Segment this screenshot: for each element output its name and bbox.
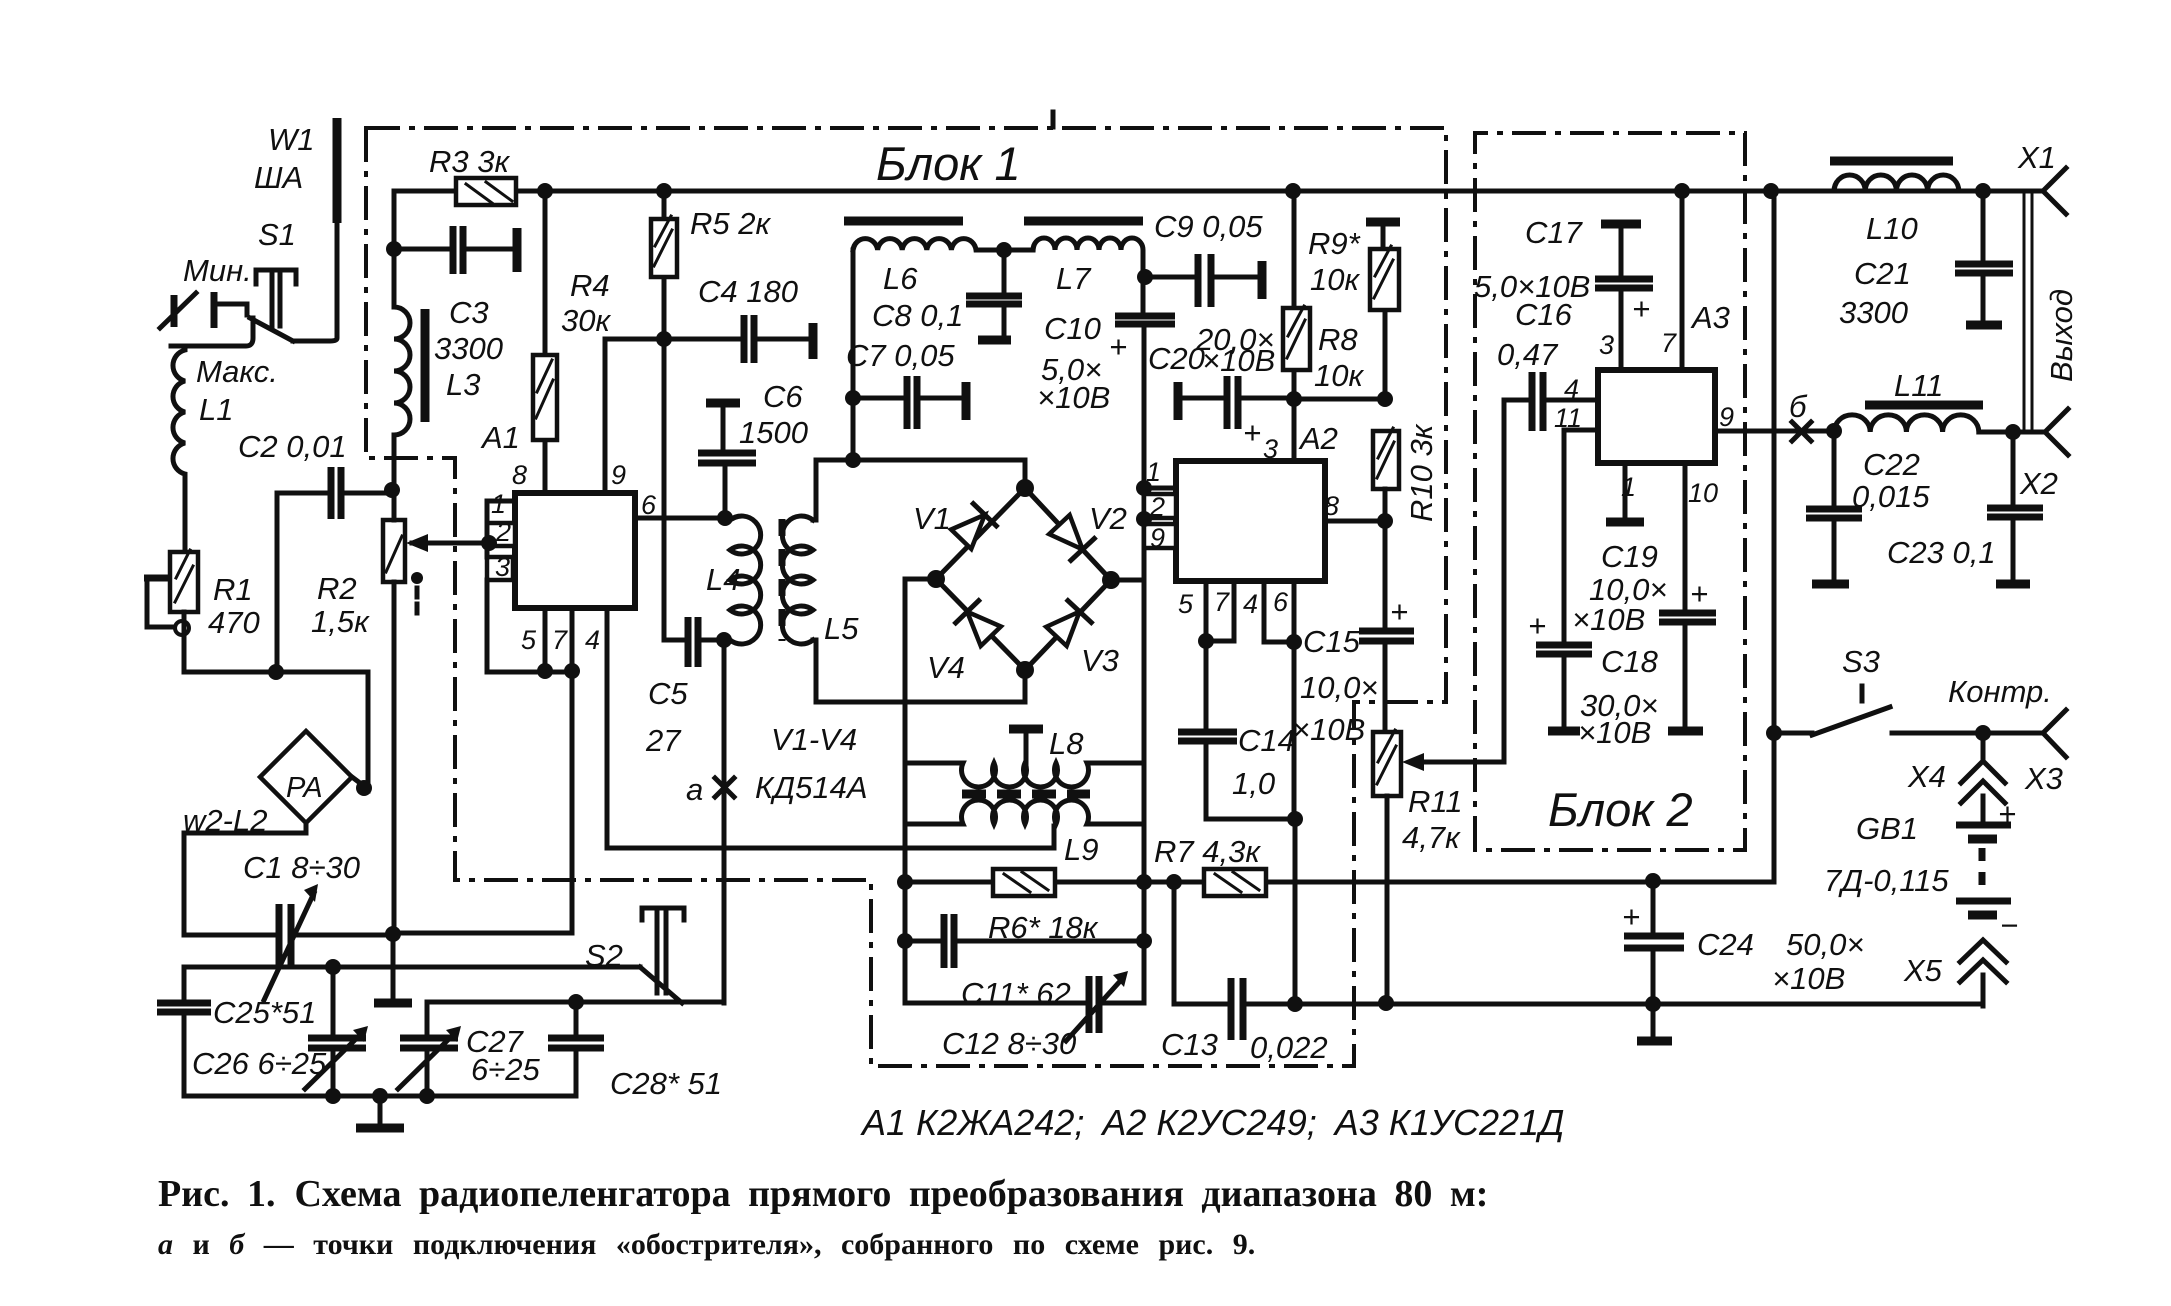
wire A2 pins 4,6 <box>1264 581 1294 819</box>
svg-text:Рис. 1. Схема радиопеленгатора: Рис. 1. Схема радиопеленгатора прямого п… <box>158 1173 1488 1215</box>
antenna W1 <box>333 118 342 223</box>
wire A3 pin7 <box>1680 191 1685 370</box>
junction C14/pin6 net <box>1287 811 1303 827</box>
svg-text:470: 470 <box>208 605 260 640</box>
core L4/L5 <box>779 519 786 641</box>
junction C26 top <box>325 959 341 975</box>
junction rail/C21 <box>1975 183 1991 199</box>
inductor L7 <box>1033 238 1143 316</box>
svg-text:R4: R4 <box>570 268 610 303</box>
svg-text:L5: L5 <box>824 611 859 646</box>
svg-text:10к: 10к <box>1314 358 1364 393</box>
wire A3 pin1 <box>1623 463 1628 519</box>
svg-text:2: 2 <box>495 517 511 547</box>
wire A3 pin11 <box>1564 430 1598 645</box>
svg-text:1: 1 <box>491 489 506 519</box>
svg-text:C12 8÷30: C12 8÷30 <box>942 1026 1076 1061</box>
svg-text:1500: 1500 <box>739 415 808 450</box>
svg-text:C10: C10 <box>1044 311 1101 346</box>
svg-text:Мин.: Мин. <box>183 253 252 288</box>
svg-text:4,7к: 4,7к <box>1402 820 1461 855</box>
wire R8-R9 node <box>1294 397 1385 402</box>
svg-text:C6: C6 <box>763 379 803 414</box>
svg-text:9: 9 <box>1150 523 1165 553</box>
svg-text:3: 3 <box>1599 330 1614 360</box>
junction R6 right <box>1136 874 1152 890</box>
svg-text:L3: L3 <box>446 367 480 402</box>
svg-text:×10В: ×10В <box>1037 380 1110 415</box>
tick on border top <box>1051 112 1056 127</box>
svg-text:C23 0,1: C23 0,1 <box>1887 535 1996 570</box>
junction L7/C9 <box>1137 269 1153 285</box>
capacitor C18 <box>1536 645 1592 654</box>
svg-text:50,0×: 50,0× <box>1786 927 1864 962</box>
svg-text:C26 6÷25: C26 6÷25 <box>192 1046 327 1081</box>
svg-text:0,015: 0,015 <box>1852 479 1930 514</box>
junction R5/C4/C5 <box>656 331 672 347</box>
wire A2 pin8 <box>1325 519 1385 524</box>
inductor L5 <box>782 516 813 644</box>
wire bridge right leg <box>1111 578 1144 583</box>
svg-text:×10В: ×10В <box>1578 715 1651 750</box>
svg-text:X4: X4 <box>1907 759 1946 794</box>
inductor L1 <box>173 346 185 552</box>
capacitor C2 <box>331 467 341 519</box>
junction rail/S3 riser <box>1763 183 1779 199</box>
svg-text:R3 3к: R3 3к <box>429 144 510 179</box>
svg-text:2: 2 <box>1149 492 1165 522</box>
svg-text:L11: L11 <box>1894 368 1943 403</box>
junction rail/A3 pin7 <box>1674 183 1690 199</box>
svg-text:R1: R1 <box>213 572 253 607</box>
svg-text:V2: V2 <box>1089 501 1127 536</box>
capacitor C23 <box>2011 432 2016 580</box>
core of L6 <box>844 217 963 226</box>
svg-text:×10В: ×10В <box>1202 343 1275 378</box>
resistor R3 <box>394 191 456 249</box>
svg-text:C25*51: C25*51 <box>213 995 316 1030</box>
svg-text:Блок 1: Блок 1 <box>876 137 1021 190</box>
junction C27 bottom <box>419 1088 435 1104</box>
svg-text:+: + <box>1622 899 1640 934</box>
core of L11 <box>1865 401 1983 410</box>
jack terminal at R1 <box>144 575 169 582</box>
svg-text:+: + <box>1690 576 1708 611</box>
node a mark <box>715 778 734 797</box>
capacitor C14 <box>1206 641 1296 819</box>
capacitor C15 <box>1383 521 1388 732</box>
connector X4 <box>1961 733 2005 825</box>
resistor R11 <box>1373 732 1401 796</box>
svg-text:C5: C5 <box>648 676 688 711</box>
junction bridge right <box>1102 571 1120 589</box>
connector X1 <box>2043 168 2066 214</box>
svg-text:L7: L7 <box>1056 261 1092 296</box>
diode V3 <box>1045 601 1092 648</box>
svg-text:C16: C16 <box>1515 297 1573 332</box>
svg-text:C22: C22 <box>1863 447 1920 482</box>
svg-text:+: + <box>1243 415 1261 450</box>
junction X4/battery <box>1975 725 1991 741</box>
svg-text:X5: X5 <box>1903 953 1943 988</box>
wire A1 pin9 <box>603 339 608 493</box>
capacitor C16 <box>1504 400 1598 762</box>
junction S3/riser <box>1766 725 1782 741</box>
svg-text:6: 6 <box>1273 587 1289 617</box>
junction C24/bus <box>1645 996 1661 1012</box>
capacitor C6 <box>706 399 740 408</box>
junction rail/R4 <box>537 183 553 199</box>
svg-text:×10В: ×10В <box>1292 712 1365 747</box>
wire L5 top to bridge <box>813 460 1025 520</box>
core of L3 <box>421 309 430 422</box>
svg-text:+: + <box>1998 796 2016 831</box>
svg-text:C18: C18 <box>1601 644 1659 679</box>
resistor R1 <box>170 552 198 612</box>
wire bottom of input section <box>184 672 368 791</box>
svg-text:R5 2к: R5 2к <box>690 206 771 241</box>
junction C28 top <box>568 994 584 1010</box>
junction R8/C20/pin3 <box>1286 391 1302 407</box>
core of L10 <box>1830 157 1953 166</box>
op-amp A3 <box>1598 370 1715 463</box>
capacitor C11 <box>905 939 1144 944</box>
potentiometer R2 <box>383 520 405 582</box>
svg-text:5: 5 <box>521 625 537 655</box>
diode V4 <box>956 601 1003 648</box>
op-amp A2 <box>1176 461 1325 581</box>
junction R6 left <box>897 874 913 890</box>
resistor R8 <box>1292 191 1297 461</box>
line Выход <box>2024 191 2032 432</box>
wire A1 pin7 <box>570 608 575 672</box>
svg-text:×10В: ×10В <box>1772 961 1845 996</box>
svg-text:+: + <box>1109 329 1127 364</box>
svg-text:C3: C3 <box>449 295 489 330</box>
svg-text:V1-V4: V1-V4 <box>771 722 857 757</box>
inductor L10 <box>1834 175 2043 191</box>
junction pins 5,7 <box>564 663 580 679</box>
junction L6/L7/C8 <box>996 242 1012 258</box>
svg-text:C21: C21 <box>1854 256 1911 291</box>
capacitor C20 <box>1174 382 1183 420</box>
svg-text:Контр.: Контр. <box>1948 674 2052 709</box>
wire bottom bus <box>1295 1002 1983 1007</box>
svg-text:C13: C13 <box>1161 1027 1218 1062</box>
svg-text:W1: W1 <box>268 122 315 157</box>
svg-text:C14: C14 <box>1238 723 1295 758</box>
wire to A1 pins 3,5,7 <box>393 671 572 933</box>
svg-text:9: 9 <box>611 460 626 490</box>
op-amp A1 <box>515 493 635 608</box>
svg-text:C19: C19 <box>1601 539 1658 574</box>
svg-text:×10В: ×10В <box>1572 602 1645 637</box>
svg-text:3: 3 <box>495 552 510 582</box>
svg-text:7: 7 <box>1214 587 1230 617</box>
junction at bottom bus <box>1287 996 1303 1012</box>
wire S2 to node a <box>427 1000 724 1005</box>
capacitor C19 <box>1683 463 1688 728</box>
svg-text:X2: X2 <box>2019 466 2058 501</box>
junction C6/A1 pin6 <box>717 510 733 526</box>
svg-text:7Д-0,115: 7Д-0,115 <box>1824 863 1949 898</box>
svg-text:−: − <box>2000 908 2018 943</box>
svg-text:а: а <box>686 772 703 807</box>
junction R2/C2/L3 <box>384 482 400 498</box>
svg-text:C7 0,05: C7 0,05 <box>846 338 955 373</box>
connector X3 <box>2043 710 2066 757</box>
svg-text:X3: X3 <box>2024 761 2063 796</box>
svg-text:L10: L10 <box>1866 211 1918 246</box>
svg-text:1: 1 <box>1146 457 1161 487</box>
junction pin8/R10/C15 <box>1377 513 1393 529</box>
resistor R5 <box>662 191 667 339</box>
svg-text:0,022: 0,022 <box>1250 1030 1328 1065</box>
capacitor C27 variable <box>425 1002 430 1096</box>
svg-text:C17: C17 <box>1525 215 1584 250</box>
junction L11/C23 <box>2005 424 2021 440</box>
svg-text:C9 0,05: C9 0,05 <box>1154 209 1263 244</box>
svg-text:C4 180: C4 180 <box>698 274 798 309</box>
svg-text:8: 8 <box>512 460 527 490</box>
switch S2 actuator <box>642 908 684 993</box>
junction C10 net/pin1 <box>1136 480 1152 496</box>
svg-text:S3: S3 <box>1842 644 1880 679</box>
inductor L3 <box>394 249 410 490</box>
svg-text:4: 4 <box>1564 374 1579 404</box>
capacitor C3 <box>453 226 463 274</box>
svg-text:4: 4 <box>585 625 600 655</box>
junction R7 left <box>1166 874 1182 890</box>
junction bridge left <box>927 570 945 588</box>
junction C11 right <box>1136 933 1152 949</box>
svg-text:C20: C20 <box>1148 341 1205 376</box>
switch S3 <box>1774 686 2043 735</box>
capacitor C17 <box>1601 220 1641 229</box>
junction rail/R8 <box>1285 183 1301 199</box>
capacitor C1 variable <box>279 904 291 968</box>
junction rail/R5 <box>656 183 672 199</box>
switch S2 blade <box>640 967 682 1003</box>
switch S1 arrow mark <box>171 295 178 327</box>
ground at tuning block <box>378 1096 383 1125</box>
node a wire <box>722 640 727 1003</box>
junction C11 left <box>897 933 913 949</box>
svg-text:C24: C24 <box>1697 927 1754 962</box>
junction C24/R7 line <box>1645 873 1661 889</box>
resistor R9 <box>1366 218 1400 227</box>
junction C5/L4/node a <box>716 632 732 648</box>
junction R9/R10 <box>1377 391 1393 407</box>
wire A2 pins 5,7 <box>1206 581 1234 641</box>
svg-text:R9*: R9* <box>1308 226 1361 261</box>
capacitor C7 <box>853 396 962 401</box>
svg-text:GB1: GB1 <box>1856 811 1918 846</box>
capacitor C22 <box>1832 431 1837 580</box>
connector X2 <box>2045 409 2068 455</box>
svg-text:X1: X1 <box>2017 140 2056 175</box>
wire bridge left leg <box>905 579 936 1003</box>
junction pins 3,5 <box>537 663 553 679</box>
svg-text:А1: А1 <box>480 420 520 455</box>
svg-text:1,5к: 1,5к <box>311 604 370 639</box>
svg-text:11: 11 <box>1554 403 1582 433</box>
svg-text:S2: S2 <box>585 938 623 973</box>
svg-text:R8: R8 <box>1318 322 1358 357</box>
svg-text:R7 4,3к: R7 4,3к <box>1154 834 1261 869</box>
resistor R10 <box>1373 431 1399 489</box>
svg-text:C2 0,01: C2 0,01 <box>238 429 347 464</box>
core L8/L9 <box>962 790 1090 799</box>
svg-text:C28* 51: C28* 51 <box>610 1066 722 1101</box>
junction C3/L3 line <box>386 241 402 257</box>
junction C10 net/pin2 <box>1136 511 1152 527</box>
junction C26 bottom <box>325 1088 341 1104</box>
svg-text:А1 К2ЖА242; А2 К2УС249; А3 К1У: А1 К2ЖА242; А2 К2УС249; А3 К1УС221Д <box>860 1102 1564 1143</box>
diode bridge edges <box>936 488 1111 670</box>
svg-text:1: 1 <box>1621 472 1636 502</box>
inductor L4 <box>725 516 761 644</box>
inductor L11 <box>1834 415 2045 432</box>
inductor L9 <box>905 800 1144 824</box>
frame Блок 1 dash-dot border <box>366 128 1446 1066</box>
capacitor C8 <box>1002 250 1007 336</box>
svg-text:L1: L1 <box>199 392 233 427</box>
capacitor C4 <box>605 337 806 342</box>
svg-text:4: 4 <box>1243 589 1258 619</box>
svg-text:1,0: 1,0 <box>1232 766 1275 801</box>
inductor L8 <box>905 763 1144 787</box>
capacitor C28 <box>574 1002 579 1096</box>
capacitor C25 <box>182 967 187 1096</box>
svg-text:Выход: Выход <box>2044 289 2079 382</box>
svg-text:R2: R2 <box>317 571 357 606</box>
junction pins 4,6 <box>1286 634 1302 650</box>
svg-text:7: 7 <box>552 625 568 655</box>
svg-text:7: 7 <box>1661 328 1677 358</box>
svg-text:V4: V4 <box>927 650 965 685</box>
svg-text:КД514А: КД514А <box>755 770 868 805</box>
svg-text:w2-L2: w2-L2 <box>183 803 267 838</box>
svg-text:C11* 62: C11* 62 <box>961 976 1071 1011</box>
node б mark <box>1792 422 1811 441</box>
wire pin6 net to bus <box>1293 819 1298 1004</box>
svg-text:10,0×: 10,0× <box>1300 670 1378 705</box>
switch S1 Мин contact <box>211 292 218 328</box>
svg-text:8: 8 <box>1324 491 1339 521</box>
capacitor C13 <box>1174 882 1295 1004</box>
wire S3 riser <box>1772 191 1777 882</box>
svg-text:10: 10 <box>1688 478 1718 508</box>
junction C2/bottom wire <box>268 664 284 680</box>
capacitor C12 variable <box>905 1001 1144 1006</box>
meter PA <box>260 731 352 823</box>
connector X5 <box>1960 940 2006 1006</box>
wire top supply rail <box>516 189 2043 194</box>
svg-text:L9: L9 <box>1064 832 1098 867</box>
junction L6 leg/bridge wire <box>845 452 861 468</box>
wire tuning block top <box>184 965 640 970</box>
svg-text:0,47: 0,47 <box>1497 337 1559 372</box>
svg-text:+: + <box>1390 594 1408 629</box>
svg-text:R6* 18к: R6* 18к <box>988 910 1099 945</box>
svg-text:L8: L8 <box>1049 726 1084 761</box>
svg-text:ША: ША <box>254 160 303 195</box>
core of L7 <box>1024 217 1143 226</box>
svg-text:PA: PA <box>286 772 323 804</box>
svg-text:L4: L4 <box>706 562 740 597</box>
frame Блок 2 dash-dot border <box>1475 133 1745 850</box>
junction pins 5,7 <box>1198 633 1214 649</box>
capacitor C9 <box>1145 275 1258 280</box>
diode V1 <box>950 504 997 551</box>
svg-text:6÷25: 6÷25 <box>471 1052 540 1087</box>
svg-text:10к: 10к <box>1310 262 1360 297</box>
svg-text:L6: L6 <box>883 261 918 296</box>
wire A3 pin9 / node б <box>1715 429 1834 434</box>
svg-text:V1: V1 <box>913 501 951 536</box>
capacitor C26 variable <box>331 967 336 1096</box>
capacitor C5 <box>688 617 698 667</box>
svg-text:Макс.: Макс. <box>196 354 278 389</box>
junction б/L11/C22 <box>1826 423 1842 439</box>
wire meter loop <box>184 833 393 935</box>
svg-text:а и б — точки подключения «обо: а и б — точки подключения «обострителя»,… <box>158 1228 1255 1261</box>
battery GB1 <box>1956 822 2011 829</box>
capacitor C24 <box>1651 881 1656 1038</box>
svg-text:А3: А3 <box>1690 300 1730 335</box>
ground at C24 <box>1637 1037 1672 1046</box>
svg-text:3: 3 <box>1263 434 1278 464</box>
svg-text:б: б <box>1789 389 1808 424</box>
wire A1 pin5 <box>543 608 548 672</box>
svg-text:6: 6 <box>641 490 657 520</box>
junction bridge bottom <box>1016 661 1034 679</box>
switch S1 actuator <box>256 270 296 326</box>
wire A1 pin6 <box>635 516 730 521</box>
resistor R4 <box>543 191 548 493</box>
svg-text:R11: R11 <box>1408 784 1463 819</box>
svg-text:+: + <box>1528 608 1546 643</box>
L8 centre tap <box>1009 725 1043 734</box>
svg-text:30к: 30к <box>561 303 611 338</box>
svg-text:C8 0,1: C8 0,1 <box>872 298 963 333</box>
capacitor C21 <box>1981 191 1986 321</box>
svg-text:3300: 3300 <box>434 331 503 366</box>
junction R11/bottom bus <box>1378 995 1394 1011</box>
svg-text:Блок 2: Блок 2 <box>1548 783 1693 836</box>
svg-text:9: 9 <box>1719 402 1734 432</box>
svg-text:5: 5 <box>1178 589 1194 619</box>
capacitor C10 <box>1115 316 1175 324</box>
svg-text:3300: 3300 <box>1839 295 1908 330</box>
svg-text:А2: А2 <box>1298 421 1338 456</box>
svg-text:S1: S1 <box>258 217 296 252</box>
junction bridge top <box>1016 479 1034 497</box>
wire A1 pin4 to L9 tap <box>607 608 1054 848</box>
svg-text:27: 27 <box>645 723 682 758</box>
junction R2 wiper/pin2 <box>481 535 497 551</box>
diode V2 <box>1048 514 1095 561</box>
wire Макс to L1 <box>171 318 253 346</box>
junction ground stem <box>372 1088 388 1104</box>
svg-text:C1 8÷30: C1 8÷30 <box>243 850 360 885</box>
junction C1/R2/ground <box>385 926 401 942</box>
switch S1 blade <box>250 318 293 341</box>
inductor L6 <box>853 239 1033 460</box>
wire tuning block bottom <box>184 1094 576 1099</box>
ground (meter net) <box>391 935 396 1001</box>
